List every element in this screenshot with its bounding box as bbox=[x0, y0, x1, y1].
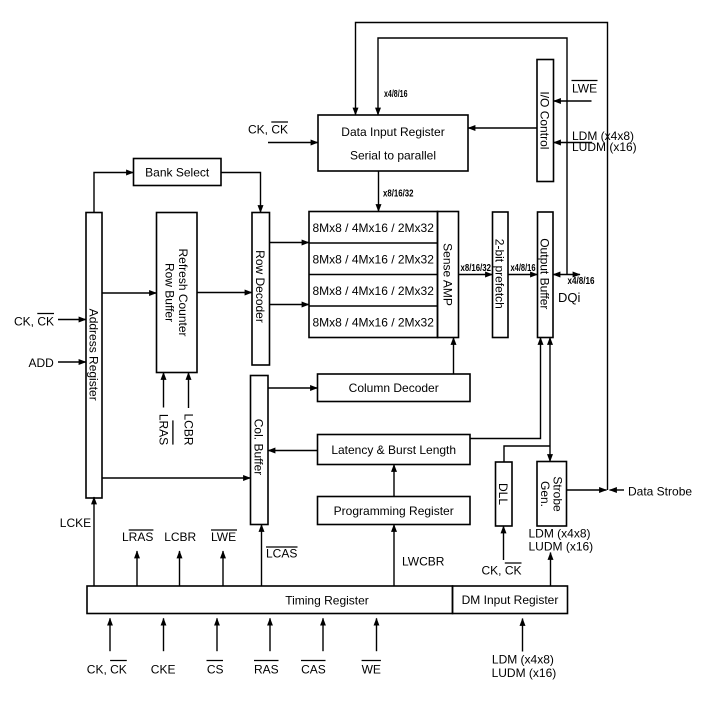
svg-text:CS: CS bbox=[207, 662, 224, 676]
svg-text:Timing Register: Timing Register bbox=[285, 593, 369, 607]
overline CS bottom bbox=[207, 660, 224, 662]
svg-text:Col. Buffer: Col. Buffer bbox=[252, 419, 266, 475]
svg-text:LRAS: LRAS bbox=[122, 530, 153, 544]
svg-text:RAS: RAS bbox=[254, 662, 279, 676]
svg-text:LUDM (x16): LUDM (x16) bbox=[492, 666, 557, 680]
wire LDM/LUDM into I/O Control bbox=[554, 142, 593, 144]
svg-text:CK, CK: CK, CK bbox=[248, 123, 288, 137]
wire ADD into Address Register bbox=[58, 361, 86, 363]
box DLL bbox=[496, 462, 513, 526]
wire Address Register to Col. Buffer bbox=[102, 477, 251, 479]
wire CAS into Timing Register bbox=[322, 618, 324, 651]
svg-text:WE: WE bbox=[362, 662, 381, 676]
wire outer feedback loop from Data Strobe line to Data Input Register bbox=[356, 23, 608, 491]
svg-text:2-bit prefetch: 2-bit prefetch bbox=[493, 239, 507, 309]
wire Strobe Gen. to Data Strobe node bbox=[567, 489, 607, 491]
overline RAS bottom bbox=[254, 660, 279, 662]
svg-text:LWE: LWE bbox=[572, 81, 597, 95]
overline WE bottom bbox=[362, 660, 381, 662]
svg-text:DQi: DQi bbox=[558, 290, 581, 305]
box Sense AMP bbox=[438, 212, 459, 338]
svg-text:DM Input Register: DM Input Register bbox=[462, 593, 559, 607]
svg-text:Output Buffer: Output Buffer bbox=[538, 238, 552, 309]
overline LCAS bbox=[266, 546, 298, 548]
box Timing Register bbox=[87, 586, 453, 614]
box Row Decoder bbox=[252, 213, 270, 366]
overline CK (DIR label) bbox=[271, 121, 288, 123]
wire LCBR into Refresh Counter bbox=[188, 373, 190, 409]
overline CK (Address Register label) bbox=[37, 313, 54, 315]
wire LRAS into Refresh Counter bbox=[163, 373, 165, 408]
svg-text:Refresh Counter: Refresh Counter bbox=[176, 248, 190, 336]
svg-text:CAS: CAS bbox=[301, 662, 326, 676]
svg-text:LDM (x4x8): LDM (x4x8) bbox=[529, 527, 591, 541]
wire Row Decoder to bank 1 bbox=[270, 242, 310, 244]
svg-text:Data Input Register: Data Input Register bbox=[341, 125, 444, 139]
svg-text:LDM (x4x8): LDM (x4x8) bbox=[492, 652, 554, 666]
svg-text:CK, CK: CK, CK bbox=[482, 564, 522, 578]
svg-text:ADD: ADD bbox=[29, 356, 55, 370]
svg-text:Row Buffer: Row Buffer bbox=[162, 263, 176, 322]
svg-text:8Mx8 / 4Mx16 / 2Mx32: 8Mx8 / 4Mx16 / 2Mx32 bbox=[313, 252, 435, 266]
svg-text:LCBR: LCBR bbox=[164, 530, 196, 544]
wire WE into Timing Register bbox=[376, 618, 378, 651]
wire bank divider 2 bbox=[309, 274, 438, 276]
svg-text:I/O Control: I/O Control bbox=[538, 91, 552, 149]
wire Address Register to Refresh Counter bbox=[102, 292, 157, 294]
wire LWCBR into Programming Register bbox=[393, 525, 395, 587]
svg-text:8Mx8 / 4Mx16 / 2Mx32: 8Mx8 / 4Mx16 / 2Mx32 bbox=[313, 315, 435, 329]
svg-text:Gen.: Gen. bbox=[538, 481, 552, 507]
svg-text:Data Strobe: Data Strobe bbox=[628, 485, 692, 499]
wire Timing Register up to LCBR bbox=[179, 551, 181, 586]
wire DLL output joining strobe link bbox=[504, 446, 550, 462]
wire Programming Register to Latency & Burst Length bbox=[393, 465, 395, 497]
svg-text:x4/8/16: x4/8/16 bbox=[384, 89, 408, 100]
box DM Input Register bbox=[453, 586, 568, 614]
svg-text:LCKE: LCKE bbox=[60, 516, 91, 530]
wire CK,CK into Address Register bbox=[58, 319, 86, 321]
svg-text:LUDM (x16): LUDM (x16) bbox=[529, 540, 594, 554]
svg-text:Column Decoder: Column Decoder bbox=[349, 381, 439, 395]
svg-text:CK, CK: CK, CK bbox=[14, 314, 54, 328]
overline RAS of rotated LRAS bbox=[172, 420, 174, 444]
overline LWE horizontal bbox=[211, 529, 237, 531]
wire LCAS into Col. Buffer bbox=[261, 525, 263, 587]
svg-text:Bank Select: Bank Select bbox=[145, 166, 210, 180]
svg-text:Programming Register: Programming Register bbox=[334, 504, 454, 518]
box Refresh Counter / Row Buffer bbox=[157, 213, 198, 373]
svg-text:8Mx8 / 4Mx16 / 2Mx32: 8Mx8 / 4Mx16 / 2Mx32 bbox=[313, 284, 435, 298]
wire bank divider 1 bbox=[309, 242, 438, 244]
wire 2-bit prefetch to Output Buffer bbox=[508, 274, 538, 276]
label Strobe Gen. (rotated) bbox=[538, 476, 565, 512]
wire RAS into Timing Register bbox=[269, 618, 271, 651]
svg-text:x8/16/32: x8/16/32 bbox=[461, 263, 492, 274]
svg-text:LRAS: LRAS bbox=[157, 414, 171, 445]
wire CK,CK into Timing Register bbox=[109, 618, 111, 651]
svg-text:LWCBR: LWCBR bbox=[402, 555, 445, 569]
wire CS into Timing Register bbox=[216, 618, 218, 651]
box Column Decoder bbox=[318, 374, 471, 402]
box memory bank array bbox=[309, 212, 438, 338]
wire Latency & Burst Length to Col. Buffer bbox=[268, 450, 318, 452]
wire Column Decoder to Sense AMP bbox=[453, 338, 455, 375]
overline CAS bottom bbox=[301, 660, 326, 662]
svg-text:DLL: DLL bbox=[496, 483, 510, 505]
wire CK,CK into Data Input Register bbox=[268, 142, 318, 144]
wire I/O Control to Data Input Register bbox=[468, 127, 537, 129]
wire CK,CK into DLL bbox=[503, 526, 505, 560]
box Bank Select bbox=[134, 159, 222, 186]
svg-text:x4/8/16: x4/8/16 bbox=[568, 276, 595, 287]
box I/O Control bbox=[537, 60, 554, 182]
overline RAS of LRAS horizontal bbox=[129, 529, 154, 531]
svg-text:8Mx8 / 4Mx16 / 2Mx32: 8Mx8 / 4Mx16 / 2Mx32 bbox=[313, 221, 435, 235]
overline LWE top right bbox=[572, 80, 598, 82]
box Data Input Register bbox=[318, 115, 468, 171]
wire inner feedback loop from DQi line to Data Input Register bbox=[378, 38, 567, 275]
box 2-bit prefetch bbox=[493, 212, 509, 338]
svg-text:LUDM (x16): LUDM (x16) bbox=[572, 140, 637, 154]
wire CKE into Timing Register bbox=[163, 618, 165, 651]
svg-text:CKE: CKE bbox=[151, 662, 176, 676]
svg-text:x8/16/32: x8/16/32 bbox=[383, 189, 414, 200]
box Strobe Gen. bbox=[537, 462, 567, 527]
svg-text:Address Register: Address Register bbox=[86, 309, 100, 401]
wire Latency & Burst Length to Output Buffer bbox=[470, 338, 541, 439]
wire Row Decoder to bank 3 bbox=[270, 304, 310, 306]
wire bank divider 3 bbox=[309, 305, 438, 307]
wire LWE into I/O Control bbox=[554, 100, 592, 102]
wire Address Register to Bank Select bbox=[94, 173, 134, 213]
wire Refresh Counter to Row Decoder bbox=[197, 292, 252, 294]
wire Data Input Register to bank array bbox=[378, 171, 380, 212]
svg-text:LCBR: LCBR bbox=[182, 413, 196, 445]
wire Output Buffer / Strobe Gen. vertical link bbox=[549, 338, 551, 462]
svg-text:Sense AMP: Sense AMP bbox=[440, 243, 454, 306]
svg-text:Latency & Burst Length: Latency & Burst Length bbox=[331, 443, 456, 457]
box Col. Buffer bbox=[251, 376, 269, 525]
wire Timing Register up to LWE bbox=[222, 551, 224, 586]
box Programming Register bbox=[318, 497, 471, 525]
svg-text:x4/8/16: x4/8/16 bbox=[511, 263, 536, 274]
wire LDM/LUDM into DM Input Register bbox=[522, 619, 524, 652]
svg-text:LCAS: LCAS bbox=[266, 547, 297, 561]
svg-text:Serial to parallel: Serial to parallel bbox=[350, 148, 436, 162]
svg-text:Row Decoder: Row Decoder bbox=[253, 250, 267, 323]
wire Col. Buffer to Column Decoder bbox=[268, 387, 318, 389]
box Address Register bbox=[86, 213, 102, 499]
wire Output Buffer to DQi pad (bidirectional) bbox=[553, 274, 580, 276]
wire LCKE into Address Register bbox=[93, 497, 95, 586]
overline CK (DLL label) bbox=[505, 562, 522, 564]
wire Data Strobe label into node bbox=[610, 489, 625, 491]
box Latency & Burst Length bbox=[318, 435, 471, 465]
wire Timing Register up to LRAS bbox=[136, 551, 138, 586]
svg-text:LWE: LWE bbox=[211, 530, 236, 544]
box Output Buffer bbox=[538, 212, 554, 338]
wire DM Input Register up to LDM/LUDM bbox=[550, 553, 552, 587]
overline CK bottom bbox=[110, 660, 127, 662]
wire Sense AMP to 2-bit prefetch bbox=[459, 274, 493, 276]
wire Bank Select to Row Decoder bbox=[221, 173, 261, 213]
svg-text:CK, CK: CK, CK bbox=[87, 662, 127, 676]
label Refresh Counter / Row Buffer (rotated) bbox=[162, 248, 190, 336]
